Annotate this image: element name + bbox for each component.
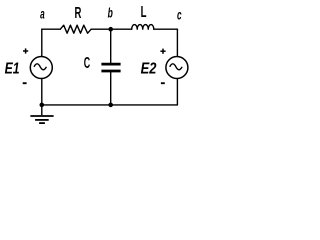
wire capacitor C down to bottom rail bbox=[110, 72, 112, 105]
junction bottom capacitor bbox=[108, 103, 113, 108]
ground bbox=[30, 105, 53, 123]
svg-text:E2: E2 bbox=[141, 61, 157, 78]
wire E1 bottom to ground junction bbox=[41, 79, 43, 105]
junction bottom left bbox=[40, 103, 45, 108]
svg-text:c: c bbox=[177, 6, 182, 22]
inductor L bbox=[132, 25, 154, 30]
svg-text:a: a bbox=[40, 6, 45, 21]
E2 minus polarity bbox=[161, 82, 165, 84]
wire bottom rail bbox=[42, 104, 178, 106]
wire R to node b bbox=[91, 28, 132, 30]
voltage source E1 bbox=[30, 57, 52, 79]
wire top-left segment a to R bbox=[42, 28, 61, 30]
svg-text:R: R bbox=[75, 5, 82, 22]
svg-text:b: b bbox=[108, 4, 113, 20]
wire node b down to capacitor C bbox=[110, 29, 112, 63]
wire L to node c bbox=[154, 28, 178, 30]
junction node b bbox=[108, 27, 113, 32]
svg-text:L: L bbox=[141, 4, 147, 21]
E1 plus polarity bbox=[23, 48, 28, 53]
capacitor C plates bbox=[101, 64, 120, 71]
voltage source E2 bbox=[166, 57, 188, 79]
svg-text:C: C bbox=[84, 55, 90, 72]
wire node c down to E2 top bbox=[176, 29, 178, 56]
wire E2 bottom to bottom rail bbox=[176, 79, 178, 105]
wire node a down to E1 top bbox=[41, 29, 43, 56]
E1 minus polarity bbox=[23, 82, 27, 84]
E2 plus polarity bbox=[160, 49, 165, 54]
svg-text:E1: E1 bbox=[5, 61, 20, 78]
resistor R bbox=[60, 25, 91, 33]
